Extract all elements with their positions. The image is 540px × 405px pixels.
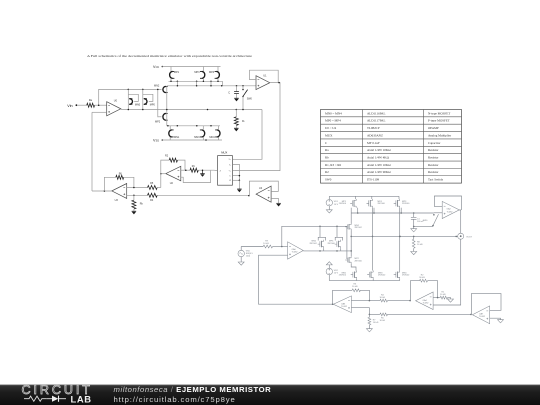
node Vin (67, 104, 77, 108)
resistor Ra (77, 99, 107, 107)
footer author line (114, 385, 272, 394)
svg-text:C: C (228, 90, 230, 94)
svg-text:ITS-1109: ITS-1109 (367, 178, 380, 182)
svg-text:MP1: MP1 (174, 71, 180, 74)
svg-text:90 kΩ: 90 kΩ (419, 277, 425, 279)
svg-text:Y+: Y+ (229, 171, 231, 173)
svg-text:P-type MOSFET: P-type MOSFET (428, 119, 450, 123)
svg-text:Axial 1/4W 90KΩ: Axial 1/4W 90KΩ (367, 170, 391, 174)
transistor MN0 (128, 89, 140, 109)
svg-text:TL082: TL082 (423, 303, 430, 305)
multiplier MUX (218, 151, 233, 186)
svg-text:Ra: Ra (325, 148, 329, 152)
wire OA2 feedback (434, 196, 461, 210)
wire gate bus (169, 81, 223, 86)
svg-text:Resistor: Resistor (428, 155, 439, 159)
svg-text:10 kΩ: 10 kΩ (380, 297, 386, 299)
svg-text:2N7000: 2N7000 (339, 203, 347, 205)
svg-text:Analog Multiplier: Analog Multiplier (428, 133, 452, 137)
svg-text:Resistor: Resistor (428, 148, 439, 152)
wire U0 plus input (92, 111, 107, 113)
svg-text:R2: R2 (325, 170, 329, 174)
svg-text:OPAMP: OPAMP (428, 126, 439, 130)
wire U4 feedback (249, 181, 278, 196)
svg-text:MP2: MP2 (155, 120, 161, 123)
transistor MN1 (169, 130, 180, 139)
svg-text:MUX: MUX (221, 151, 227, 155)
resistor R6 right schematic (333, 283, 370, 304)
svg-text:2N7000: 2N7000 (355, 260, 363, 262)
op-amp OA4 (416, 292, 434, 310)
wire U0 output rail (121, 109, 262, 111)
resistor R8 (412, 236, 423, 251)
wire OA5 feedback (471, 294, 501, 315)
svg-text:ALD1116PAL: ALD1116PAL (367, 111, 385, 115)
wire U3 output (92, 190, 112, 192)
wire gate column (346, 226, 348, 259)
svg-text:A Full schematics of the decre: A Full schematics of the decremented mem… (87, 54, 253, 58)
svg-text:2N7002: 2N7002 (310, 243, 318, 245)
wire lower bus (167, 125, 220, 130)
wire upper bus (167, 85, 256, 87)
source VS1 (326, 196, 339, 206)
svg-text:LAB: LAB (71, 393, 92, 404)
ground under VS0 (238, 257, 244, 266)
wire node to OA4 plus (433, 239, 461, 305)
svg-text:10 kΩ: 10 kΩ (380, 320, 386, 322)
power arrow VS2 (326, 262, 332, 269)
transistor MP3 right schematic (394, 199, 410, 208)
svg-text:MN3: MN3 (194, 136, 200, 139)
resistor RL (234, 110, 244, 129)
svg-text:MN4: MN4 (209, 136, 215, 139)
resistor R1 (190, 165, 215, 172)
svg-text:2N7000: 2N7000 (378, 203, 386, 205)
svg-text:Vin: Vin (67, 104, 72, 108)
svg-text:MF 0.1uF: MF 0.1uF (367, 141, 380, 145)
svg-text:2N7000: 2N7000 (328, 243, 336, 245)
svg-text:MUX: MUX (325, 133, 333, 137)
svg-text:TL082: TL082 (341, 306, 348, 308)
svg-text:2N7002: 2N7002 (339, 275, 347, 277)
transistor MN4 right schematic (394, 271, 410, 279)
wire OA4 minus (433, 297, 440, 299)
svg-text:TL082: TL082 (292, 252, 299, 254)
svg-text:Axial 1/4W 10KΩ: Axial 1/4W 10KΩ (367, 148, 391, 152)
svg-text:MP0: MP0 (150, 104, 156, 107)
wire memristor node (351, 236, 458, 238)
ground under RL (234, 128, 239, 131)
footer bar (0, 384, 540, 405)
transistor MP0 (143, 89, 156, 109)
footer url line (114, 395, 236, 404)
switch SW0 (242, 86, 252, 110)
wire bottom rail (329, 279, 399, 281)
wire OA3 plus line (351, 308, 370, 316)
svg-text:VOUT: VOUT (466, 236, 473, 238)
wire U2 plus path (181, 171, 211, 183)
ground under VS1 (326, 206, 332, 213)
wire MN2-MP2 column (158, 86, 167, 126)
svg-text:RL: RL (242, 120, 245, 123)
transistor MP1 (170, 71, 180, 78)
svg-text:Axial 1/4W 4KΩ: Axial 1/4W 4KΩ (367, 155, 390, 159)
svg-text:Axial 1/4W 10KΩ: Axial 1/4W 10KΩ (367, 163, 391, 167)
ground under C (234, 98, 239, 101)
resistor R7 (368, 314, 379, 328)
resistor R4 (148, 193, 249, 202)
op-amp U1 (256, 74, 270, 89)
wire U3 minus line (127, 187, 148, 189)
svg-text:MN1: MN1 (174, 136, 180, 139)
resistor Rb (132, 195, 144, 211)
wire U4 output (248, 195, 250, 197)
wire drain column MP3-MN4 (399, 208, 401, 271)
wire U1 output (235, 82, 280, 171)
svg-text:TL082: TL082 (479, 316, 486, 318)
wire U2 output (160, 173, 166, 188)
wire top rail (329, 196, 399, 199)
parts table (321, 110, 462, 184)
svg-text:AD633ANZ: AD633ANZ (367, 133, 383, 137)
ground under R7 (366, 329, 372, 332)
svg-text:SW0: SW0 (325, 178, 332, 182)
wire mux riser (235, 110, 262, 160)
svg-text:CC: CC (156, 66, 160, 69)
svg-text:MP3: MP3 (194, 71, 200, 74)
ground after R1 (200, 170, 205, 177)
wire Vss rail (162, 137, 222, 141)
svg-text:TL082CP: TL082CP (367, 126, 380, 130)
net Vcc label (153, 65, 163, 69)
op-amp OA3 (333, 296, 351, 313)
svg-text:SW0: SW0 (247, 98, 253, 101)
transistor MN4 (209, 130, 220, 139)
transistor MN3 right schematic (367, 271, 386, 279)
svg-text:10 V: 10 V (334, 273, 339, 275)
svg-text:Resistor: Resistor (428, 163, 439, 167)
op-amp U2 (166, 166, 181, 185)
wire U3 plus line (127, 195, 148, 197)
svg-text:MP0 ~ MP4: MP0 ~ MP4 (325, 119, 341, 123)
wire OA0 output (303, 250, 351, 252)
transistor MN2 (154, 84, 168, 92)
resistor R5 (148, 182, 161, 189)
svg-text:W: W (229, 180, 231, 182)
capacitor C1 (411, 213, 433, 227)
transistor MN1 right schematic (339, 271, 357, 279)
svg-text:MP4: MP4 (209, 71, 215, 74)
svg-text:2N7002: 2N7002 (402, 275, 410, 277)
resistor R6 (104, 172, 133, 191)
wire OA3 output (332, 303, 334, 305)
wire drain column MP4-MN3 (372, 208, 374, 271)
op-amp U0 (107, 99, 121, 115)
wire OA2 plus (434, 212, 442, 214)
ground under R8 (411, 252, 417, 255)
wire OA0 feedback to gates (282, 226, 347, 247)
transistor MP4 right schematic (367, 199, 386, 208)
ground after R1 right schematic (448, 299, 454, 302)
svg-text:2N7000: 2N7000 (402, 203, 410, 205)
svg-text:10 kΩ: 10 kΩ (440, 294, 446, 296)
wire OA0 plus loop (259, 255, 333, 304)
wire OA2 output to node (459, 210, 460, 233)
logo LAB text (71, 393, 92, 404)
resistor R2 right schematic (410, 275, 437, 301)
svg-text:100): 100) (246, 256, 250, 258)
transistor MP2 right schematic (345, 256, 362, 264)
svg-text:C: C (325, 141, 327, 145)
svg-text:Rb: Rb (325, 155, 329, 159)
svg-text:MN2: MN2 (154, 84, 160, 87)
ground under MUX (237, 180, 242, 192)
wire OA3 minus line (351, 300, 380, 302)
svg-text:10 kΩ: 10 kΩ (352, 286, 358, 288)
op-amp OA2 (442, 201, 459, 218)
op-amp U3 (112, 184, 127, 203)
svg-text:MN0: MN0 (135, 104, 141, 107)
logo CIRCUIT text (22, 383, 93, 397)
transistor MN2 right schematic (345, 223, 362, 231)
svg-text:MN0 ~ MN4: MN0 ~ MN4 (325, 111, 342, 115)
wire U1 feedback (250, 70, 279, 82)
transistor MP1 right schematic (339, 199, 356, 208)
svg-text:TL082: TL082 (447, 211, 454, 213)
svg-text:Tact Switch: Tact Switch (428, 178, 443, 182)
ground under C1 (411, 226, 417, 232)
transistor MP2 (155, 113, 168, 123)
wire MUX pins (215, 159, 241, 181)
svg-text:2N7002: 2N7002 (378, 275, 386, 277)
svg-text:SS: SS (156, 139, 160, 142)
resistor R2 (161, 155, 185, 174)
svg-text:Resistor: Resistor (428, 170, 439, 174)
ground under Rb (132, 211, 137, 214)
wire OA5 minus to ground (490, 318, 504, 323)
svg-text:10 kΩ: 10 kΩ (417, 244, 423, 246)
svg-text:U0 ~ U4: U0 ~ U4 (325, 126, 337, 130)
wire drain column MN2-MP2 (350, 208, 356, 271)
node VOUT (458, 233, 473, 239)
wire U4 plus to ground (271, 199, 281, 207)
source VS2 (326, 268, 339, 280)
svg-text:X+: X+ (229, 159, 231, 161)
capacitor C (228, 86, 239, 98)
svg-text:ALD1117PAL: ALD1117PAL (367, 119, 385, 123)
op-amp U4 (256, 186, 271, 202)
wire U2 minus (181, 169, 190, 171)
source VS0 (238, 247, 254, 258)
svg-text:10 kΩ: 10 kΩ (373, 322, 379, 324)
wire Vcc rail (162, 67, 220, 72)
resistor R5 right schematic (369, 313, 471, 322)
resistor R9 (241, 241, 287, 248)
svg-text:http://circuitlab.com/c75p8ye: http://circuitlab.com/c75p8ye (114, 395, 236, 404)
svg-text:2N7002: 2N7002 (355, 227, 363, 229)
transistor MP3 (194, 71, 204, 78)
wire U0 feedback (99, 89, 159, 106)
svg-text:N-type MOSFET: N-type MOSFET (428, 111, 450, 115)
op-amp OA5 (472, 306, 489, 324)
op-amp OA0 (288, 242, 304, 259)
transistor MN6 pair left (310, 226, 326, 251)
transistor MP4 (209, 71, 219, 78)
wire gate bus y213 (351, 208, 434, 214)
wire left feedback column (91, 112, 93, 191)
transistor MN3 (194, 130, 205, 139)
wire pmos drains to bus (171, 78, 218, 81)
switch SW1 (423, 214, 439, 226)
svg-text:10 kΩ: 10 kΩ (263, 243, 269, 245)
transistor MP6 pair right (328, 226, 343, 251)
title caption (87, 54, 253, 58)
logo resistor-diode glyph (24, 396, 66, 402)
svg-text:Capacitor: Capacitor (428, 141, 441, 145)
resistor R4 right schematic (380, 294, 411, 302)
net Vss label (153, 138, 163, 142)
resistor R1 right schematic (440, 291, 451, 299)
svg-text:miltonfonseca / EJEMPLO MEMRIS: miltonfonseca / EJEMPLO MEMRISTOR (114, 385, 272, 394)
